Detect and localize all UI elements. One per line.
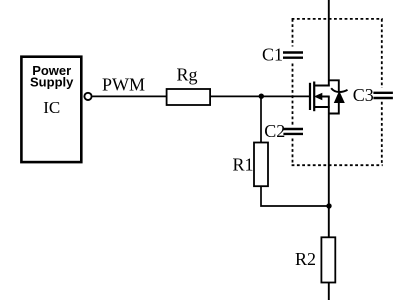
PWM output terminal circle [84,93,91,100]
wire drain from top [328,0,330,87]
capacitor C1 plates [283,51,303,53]
power supply IC box U1 [21,57,81,162]
MOSFET Q1 source arrow [314,93,322,100]
svg-text:Supply: Supply [30,75,74,90]
wire R1 bottom to source node [261,186,329,206]
junction node gate/R1 [259,94,264,99]
wire Rg to gate node [210,95,310,97]
svg-text:C1: C1 [262,45,283,65]
capacitor C2 plates [283,128,303,130]
svg-text:PWM: PWM [102,74,145,94]
svg-text:C3: C3 [353,85,374,105]
MOSFET Q1 gate bar [309,83,311,110]
svg-text:Rg: Rg [177,65,198,85]
wire R2 bottom to edge [328,283,330,300]
MOSFET Q1 channel bar [313,82,315,112]
dashed MOSFET package box bottom edge [292,164,383,166]
body diode D1 cathode curve [331,88,347,92]
wire source down to R2 [328,97,330,239]
svg-text:C2: C2 [264,121,285,141]
svg-text:IC: IC [43,98,60,117]
junction node source/R2 [326,203,331,208]
wire drain to body diode [329,80,339,92]
resistor R2 [321,237,335,282]
MOSFET Q1 source stub [314,106,330,108]
svg-text:R2: R2 [295,249,316,269]
wire PWM terminal to Rg [93,95,167,97]
dashed MOSFET package box right edge [381,19,383,88]
wire node to R1 [260,96,262,143]
resistor Rg [167,89,211,105]
dashed MOSFET package box left edge [292,19,294,47]
resistor R1 [254,143,268,187]
wire body diode anode to source [329,103,339,114]
svg-text:R1: R1 [233,155,254,175]
capacitor C3 plates [373,92,393,94]
MOSFET Q1 drain stub [314,85,330,87]
dashed MOSFET package box top edge [292,18,383,20]
body diode D1 triangle [334,91,345,103]
